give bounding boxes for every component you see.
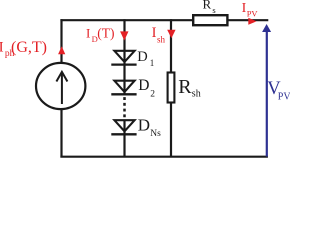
- wire R_sh branch bottom: [170, 103, 172, 158]
- resistor R_sh box: [168, 73, 175, 103]
- arrow I_PV (red, right): [248, 18, 256, 25]
- svg-text:(G,T): (G,T): [11, 39, 47, 56]
- label I_D(T): [86, 26, 115, 45]
- arrow I_sh (red, down): [167, 30, 175, 39]
- svg-text:D: D: [137, 49, 147, 65]
- dotted wire between D2 and DNs: [123, 97, 126, 117]
- wire through DNs to bottom: [123, 120, 125, 158]
- label R_sh: [178, 76, 201, 100]
- svg-text:D: D: [138, 116, 150, 135]
- svg-text:(T): (T): [97, 26, 114, 41]
- svg-text:2: 2: [150, 89, 155, 99]
- svg-text:Ns: Ns: [150, 129, 161, 139]
- wire left branch lower: [60, 109, 62, 158]
- svg-text:D: D: [138, 77, 149, 94]
- wire top horizontal: [60, 19, 268, 21]
- svg-text:sh: sh: [192, 89, 201, 100]
- label I_sh: [152, 25, 166, 45]
- wire bottom horizontal: [60, 156, 268, 158]
- resistor R_s box: [193, 15, 227, 25]
- label DNs: [138, 116, 161, 139]
- svg-text:PV: PV: [247, 9, 259, 19]
- wire left branch upper: [60, 19, 62, 64]
- label V_PV: [267, 79, 291, 103]
- label I_ph(G,T): [0, 39, 47, 59]
- wire diode branch top through D1 D2: [123, 19, 125, 94]
- svg-text:R: R: [178, 76, 192, 98]
- svg-text:I: I: [0, 40, 4, 56]
- svg-text:R: R: [203, 0, 212, 12]
- label D2: [138, 77, 155, 99]
- wire R_sh branch top: [170, 19, 172, 73]
- svg-text:sh: sh: [157, 35, 166, 45]
- label R_s: [203, 0, 216, 15]
- diode D1: [111, 51, 136, 65]
- arrow V_PV (blue, up): [262, 24, 271, 157]
- svg-text:I: I: [86, 26, 90, 41]
- svg-text:I: I: [152, 25, 157, 41]
- arrow I_D (red, down): [120, 31, 128, 40]
- label D1: [137, 49, 154, 68]
- label I_PV: [242, 1, 259, 19]
- svg-text:PV: PV: [278, 92, 290, 103]
- diode DNs: [111, 120, 136, 134]
- svg-text:1: 1: [150, 58, 155, 68]
- arrow I_ph (red, up): [58, 46, 65, 54]
- svg-text:s: s: [212, 5, 215, 15]
- current source arrow: [56, 72, 67, 104]
- current source I_ph circle: [36, 63, 85, 109]
- diode D2: [111, 81, 136, 95]
